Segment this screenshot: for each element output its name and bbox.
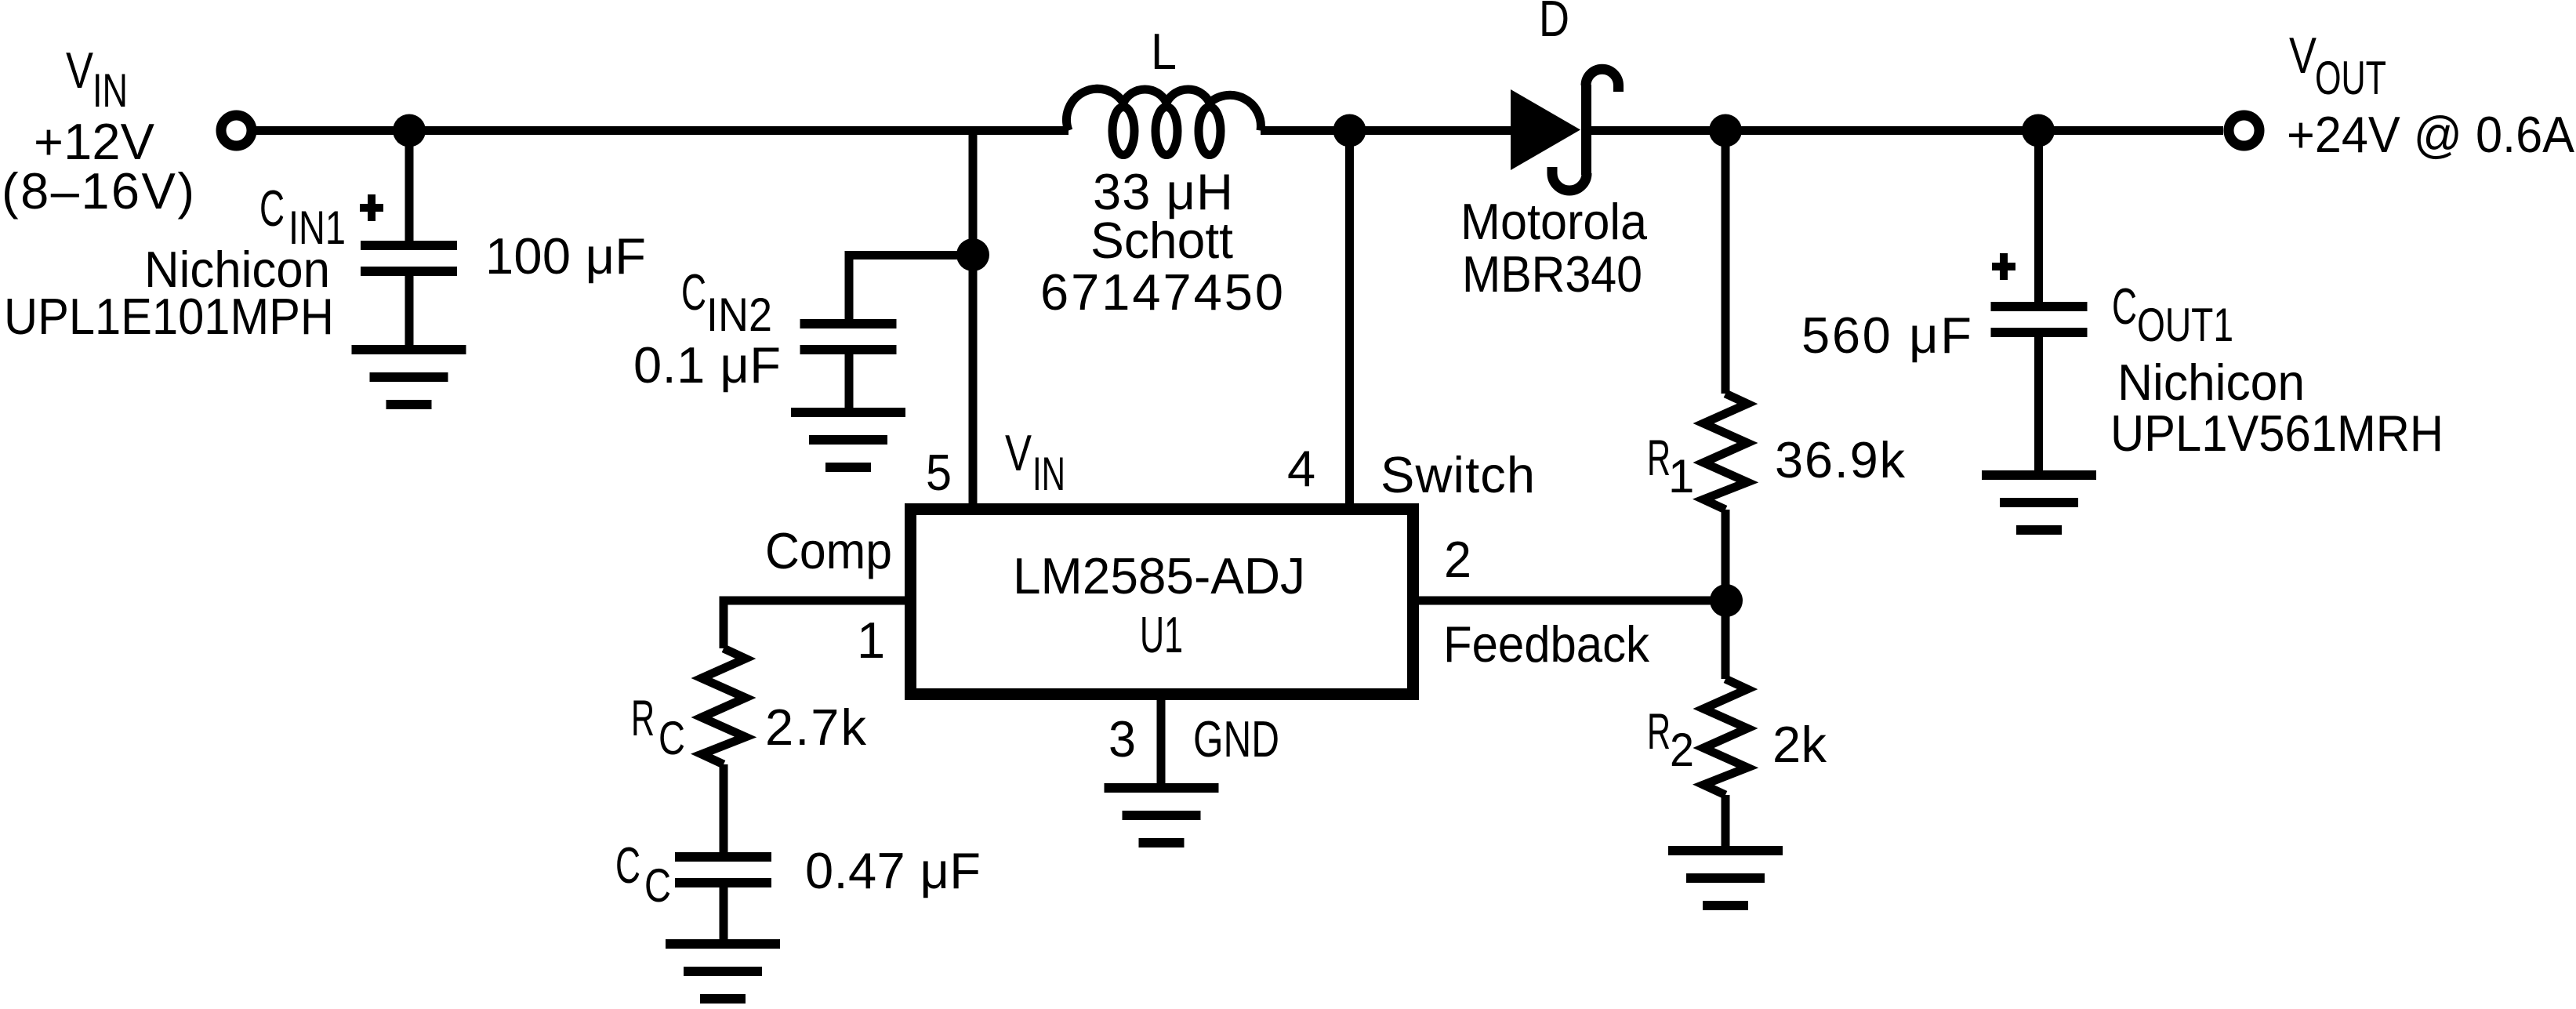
label COUT1 subscript [2137,299,2233,351]
label VOUT V [2289,27,2317,84]
svg-text:MBR340: MBR340 [1462,245,1642,303]
svg-text:UPL1E101MPH: UPL1E101MPH [4,288,334,345]
svg-text:IN2: IN2 [706,289,772,341]
label pin5 VIN subscript [1032,448,1065,500]
wire R2 top lead [1722,601,1730,679]
label Comp [765,522,892,579]
label Switch [1381,446,1535,503]
label Motorola [1460,193,1648,250]
svg-text:GND: GND [1193,710,1279,768]
label 100uF [485,227,646,285]
terminal VIN [221,115,252,146]
wire R1 top lead [1722,131,1730,394]
label CIN2 C [681,263,706,321]
svg-text:5: 5 [926,444,952,501]
svg-text:2.7k: 2.7k [765,699,867,756]
wire CIN1 top lead [405,131,414,246]
svg-text:V: V [66,42,94,99]
label Nichicon left [144,241,330,298]
label R1 R [1647,429,1671,486]
wire R2 bottom lead [1722,795,1730,851]
wire R1 bottom lead to feedback node [1722,510,1730,601]
label +24V@0.6A [2287,106,2575,163]
capacitor CIN1 plates [361,245,457,271]
svg-text:Nichicon: Nichicon [2117,354,2305,411]
label 0.1uF [633,336,781,394]
svg-text:C: C [615,837,640,894]
svg-text:C: C [681,263,706,321]
svg-text:IN: IN [1032,448,1065,500]
label pin3 number [1108,710,1136,768]
svg-text:U1: U1 [1140,606,1183,663]
svg-text:R: R [1647,702,1671,760]
label 33uH [1093,163,1233,220]
svg-text:R: R [1647,429,1671,486]
svg-text:Feedback: Feedback [1443,615,1649,673]
svg-text:1: 1 [857,612,885,669]
label VIN subscript [93,64,128,117]
wire pin 4 Switch vertical [1345,131,1354,510]
terminal VOUT [2229,115,2259,146]
label pin5 number [926,444,952,501]
node junction feedback node [1710,584,1743,617]
label (8-16V) [2,162,194,220]
svg-text:4: 4 [1287,440,1315,497]
svg-text:Switch: Switch [1381,446,1535,503]
label RC R [631,689,655,746]
resistor R1 36.9k [1703,394,1747,510]
polarity plus CIN1 [360,194,383,221]
node junction CIN2 tap [956,238,989,271]
svg-text:D: D [1539,0,1569,47]
label Nichicon right [2117,354,2305,411]
ground COUT1 [1982,475,2096,530]
svg-text:C: C [2112,278,2137,335]
label U1 [1140,606,1183,663]
label D [1539,0,1569,47]
svg-text:C: C [659,712,685,764]
label 2.7k [765,699,867,756]
svg-text:Motorola: Motorola [1460,193,1648,250]
node junction R1 tap [1709,114,1742,147]
label Feedback [1443,615,1649,673]
wire pin 3 GND stem [1157,694,1166,788]
svg-text:L: L [1151,23,1177,80]
label VIN V [66,42,94,99]
svg-text:IN: IN [93,64,128,117]
label MBR340 [1462,245,1642,303]
svg-text:V: V [2289,27,2317,84]
label pin1 number [857,612,885,669]
svg-text:1: 1 [1668,450,1694,503]
label CC C [615,837,640,894]
svg-text:2: 2 [1670,724,1694,776]
svg-text:C: C [644,859,671,912]
svg-text:36.9k: 36.9k [1775,431,1906,488]
label VOUT subscript [2315,52,2386,104]
label 2k [1772,716,1827,773]
label L [1151,23,1177,80]
label R2 R [1647,702,1671,760]
svg-text:0.1 μF: 0.1 μF [633,336,781,394]
wire switch net: inductor to diode [1261,126,1511,135]
svg-text:2k: 2k [1772,716,1827,773]
ground R2 [1668,851,1783,906]
label pin2 number [1444,531,1471,588]
wire pin 2 Feedback [1419,597,1726,605]
label R2 subscript [1670,724,1694,776]
wire CIN2 elbow [849,256,973,325]
node junction CIN1 tap [393,114,426,147]
wire pin 5 VIN vertical [969,131,978,510]
wire CIN2 bottom lead [845,350,854,412]
svg-text:OUT: OUT [2315,52,2386,104]
svg-text:OUT1: OUT1 [2137,299,2233,351]
svg-text:2: 2 [1444,531,1471,588]
label CIN1 subscript [288,201,346,254]
label Schott [1090,212,1233,269]
label 560uF [1801,307,1972,364]
label LM2585-ADJ [1013,547,1305,604]
label UPL1E101MPH [4,288,334,345]
svg-text:R: R [631,689,655,746]
wire CC bottom lead [720,883,728,944]
diode D MBR340 [1511,69,1619,191]
node junction switch node [1333,114,1366,147]
wire input net: VIN terminal to inductor [256,126,1068,135]
wire COUT bottom lead [2034,332,2043,475]
wire pin 1 Comp elbow [724,601,910,648]
wire CIN1 bottom lead [405,271,414,350]
label 36.9k [1775,431,1906,488]
capacitor CC plates [675,857,771,883]
polarity plus COUT1 [1992,253,2015,280]
label 0.47uF [805,842,981,899]
label pin5 V [1005,424,1032,481]
svg-text:(8–16V): (8–16V) [2,162,194,220]
svg-text:V: V [1005,424,1032,481]
label CIN1 C [259,180,285,237]
svg-text:3: 3 [1108,710,1136,768]
svg-text:Schott: Schott [1090,212,1233,269]
wire output net: diode to VOUT terminal [1591,126,2223,135]
inductor L [1067,89,1261,154]
svg-text:LM2585-ADJ: LM2585-ADJ [1013,547,1305,604]
label CIN2 subscript [706,289,772,341]
svg-text:UPL1V561MRH: UPL1V561MRH [2110,405,2444,462]
ground CC [666,944,780,999]
ground U1 GND [1105,788,1219,843]
svg-text:100 μF: 100 μF [485,227,646,285]
wire COUT top lead [2034,131,2043,307]
svg-text:0.47 μF: 0.47 μF [805,842,981,899]
capacitor CIN2 plates [800,324,897,350]
op-amp IC U1 LM2585-ADJ box [911,510,1413,695]
node junction COUT tap [2022,114,2055,147]
ground CIN1 [352,350,466,405]
label CC subscript [644,859,671,912]
svg-text:+24V @ 0.6A: +24V @ 0.6A [2287,106,2575,163]
resistor R2 2k [1703,679,1747,795]
label COUT1 C [2112,278,2137,335]
svg-text:560 μF: 560 μF [1801,307,1972,364]
ground CIN2 [791,412,905,467]
capacitor COUT1 plates [1991,307,2088,332]
label RC subscript [659,712,685,764]
svg-text:C: C [259,180,285,237]
label R1 subscript [1668,450,1694,503]
label UPL1V561MRH [2110,405,2444,462]
wire RC to CC [720,764,728,857]
resistor RC 2.7k [702,648,746,764]
label GND [1193,710,1279,768]
label +12V [34,113,155,170]
label 67147450 [1040,263,1283,321]
label pin4 number [1287,440,1315,497]
svg-text:Comp: Comp [765,522,892,579]
